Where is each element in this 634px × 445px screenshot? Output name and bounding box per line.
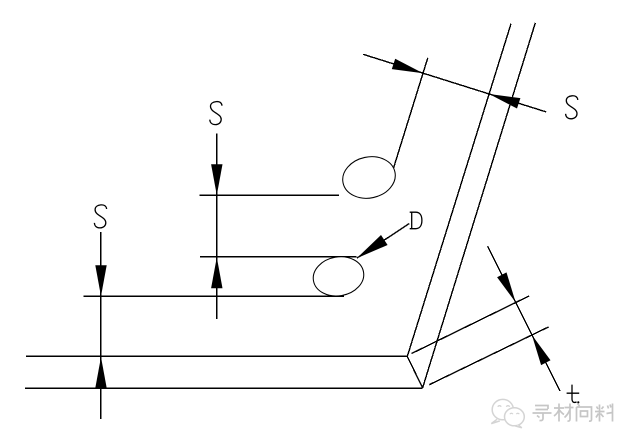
wire: bend front edge (407, 356, 422, 388)
wire: base sheet top surface H4 (26, 355, 407, 357)
node: label D (410, 212, 422, 229)
wire: t dimension line (488, 246, 560, 391)
问 (577, 404, 592, 422)
node: D leader arrow (357, 235, 388, 258)
node: label S3 (top right) (566, 96, 578, 119)
watermark logo (491, 399, 524, 427)
node: lower curl (ellipse, diameter D) (310, 253, 367, 300)
watermark text 寻材问料 (533, 404, 613, 422)
wire: base sheet bottom surface H5 (25, 387, 423, 389)
node: dot after t (577, 401, 579, 403)
wire: S2 dimension vertical line (100, 232, 102, 419)
node: arrow up-left on t dimension at lower shallow edge (532, 335, 551, 365)
node: upper curl (ellipse) (339, 152, 399, 203)
wire: horizontal sheet line H3 (lower curl bottom tangent) (84, 295, 344, 297)
node: label S1 (210, 102, 222, 125)
node: label t (567, 385, 580, 403)
材 (554, 404, 574, 422)
料 (595, 404, 613, 422)
wire: S1 dimension vertical line (216, 134, 218, 319)
node: arrow left on top S dimension at flange face (489, 94, 520, 109)
wire: flange end edge upper (shallow) (412, 296, 530, 354)
node: arrow down-right on t dimension at upper shallow edge (497, 272, 516, 302)
node: arrow down on S2 line at H3 (95, 265, 106, 296)
wire: top S dimension line (363, 54, 546, 112)
node: arrow right on top S dimension at extension line (392, 59, 423, 73)
寻 (533, 406, 552, 421)
wire: horizontal sheet line H2 (lower curl top tangent) (200, 256, 357, 258)
node: label S2 (94, 205, 106, 228)
wire: curl tangent extension line (393, 58, 428, 171)
wire: horizontal sheet line H1 (upper curl bottom tangent) (199, 194, 339, 196)
node: arrow down on S1 line at H1 (211, 164, 222, 195)
wire: flange left face (steep line) (407, 24, 511, 357)
wire: D leader line (357, 224, 409, 259)
wire: flange right face (steep line) (423, 23, 536, 388)
node: arrow up on S1 line at H2 (211, 257, 222, 288)
node: arrow up on S2 line at H4 (95, 357, 106, 388)
wire: flange end edge lower (shallow) (429, 327, 548, 385)
